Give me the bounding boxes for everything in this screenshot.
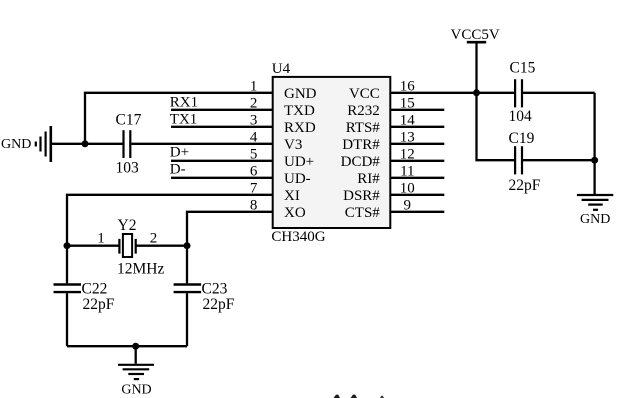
svg-text:22pF: 22pF: [203, 296, 235, 313]
svg-text:VCC5V: VCC5V: [451, 27, 500, 43]
capacitor C17: [116, 111, 142, 176]
svg-text:RTS#: RTS#: [346, 120, 381, 136]
wire right rail down: [593, 93, 595, 194]
junction node bottom: [132, 343, 139, 350]
wire pin16 VCC rail: [390, 92, 514, 94]
svg-text:103: 103: [116, 160, 140, 177]
svg-text:C19: C19: [509, 130, 535, 147]
wire pin7 XI down to crystal: [67, 195, 272, 246]
svg-text:RX1: RX1: [170, 95, 198, 111]
svg-text:CTS#: CTS#: [345, 205, 381, 221]
wire pin9 stub: [390, 211, 444, 213]
svg-text:TX1: TX1: [170, 111, 198, 127]
svg-text:12MHz: 12MHz: [117, 261, 164, 278]
junction node right rail: [591, 157, 598, 164]
junction node crystal left: [64, 242, 71, 249]
svg-text:C15: C15: [510, 60, 536, 77]
op-amp U4 IC body CH340G: [271, 61, 390, 245]
wire C23 bottom leg: [186, 293, 188, 346]
wire pin1 GND to left rail: [85, 93, 272, 144]
wire pin4 V3 line through C17: [51, 143, 123, 145]
wire C19 right to rail: [523, 159, 595, 161]
svg-text:DSR#: DSR#: [343, 188, 380, 204]
wire C22 bottom leg: [66, 293, 68, 346]
ground right (earth): [577, 195, 613, 227]
crystal Y2: [67, 217, 187, 278]
svg-text:RXD: RXD: [284, 120, 316, 136]
capacitor C15: [509, 60, 536, 125]
capacitor C23: [174, 281, 235, 313]
wire pin8 XO down to crystal: [187, 212, 272, 246]
wire pin11 stub: [390, 177, 444, 179]
capacitor C19: [509, 130, 541, 194]
wire pin6 D-: [171, 177, 272, 179]
svg-text:RI#: RI#: [357, 171, 380, 187]
svg-text:TXD: TXD: [284, 103, 315, 119]
svg-text:DCD#: DCD#: [341, 154, 381, 170]
wire pin14 stub: [390, 126, 444, 128]
wire crystal right leg down: [186, 246, 188, 284]
svg-text:Y2: Y2: [118, 217, 137, 234]
junction node VCC: [473, 89, 480, 96]
ground bottom (earth): [118, 365, 154, 398]
svg-text:1: 1: [97, 230, 105, 246]
wire pin2 RX1: [171, 109, 272, 111]
capacitor C22: [54, 281, 115, 313]
wire pin3 TX1: [171, 126, 272, 128]
power VCC5V: [451, 27, 500, 93]
wire pin13 stub: [390, 143, 444, 145]
svg-text:GND: GND: [121, 382, 151, 397]
svg-text:R232: R232: [347, 103, 380, 119]
svg-text:D+: D+: [170, 144, 189, 160]
wire pin15 stub: [390, 109, 444, 111]
wire bottom joining caps: [67, 345, 187, 347]
svg-text:GND: GND: [1, 137, 31, 152]
svg-text:22pF: 22pF: [509, 177, 541, 194]
svg-text:UD-: UD-: [284, 171, 311, 187]
caption fragment cut off at bottom edge: [334, 395, 384, 398]
wire stub to bottom ground: [135, 346, 137, 364]
svg-text:XO: XO: [284, 205, 306, 221]
svg-text:UD+: UD+: [284, 154, 314, 170]
svg-text:104: 104: [509, 108, 533, 125]
wire pin10 stub: [390, 194, 444, 196]
svg-text:22pF: 22pF: [83, 296, 115, 313]
svg-text:V3: V3: [284, 137, 302, 153]
wire VCC branch down to C19: [477, 93, 515, 160]
wire pin12 stub: [390, 160, 444, 162]
svg-text:CH340G: CH340G: [271, 229, 325, 245]
wire crystal left leg down: [66, 246, 68, 284]
svg-text:VCC: VCC: [349, 86, 380, 102]
svg-text:XI: XI: [284, 188, 300, 204]
svg-text:2: 2: [150, 230, 158, 246]
svg-text:GND: GND: [580, 212, 610, 227]
svg-text:C17: C17: [116, 111, 142, 128]
junction node crystal right: [184, 242, 191, 249]
svg-text:GND: GND: [284, 86, 317, 102]
svg-text:DTR#: DTR#: [342, 137, 380, 153]
svg-text:D-: D-: [170, 161, 186, 177]
wire pin5 D+: [171, 160, 272, 162]
junction node at left rail: [82, 140, 89, 147]
svg-text:U4: U4: [272, 61, 291, 77]
ground symbol left (signal ground): [36, 126, 51, 162]
